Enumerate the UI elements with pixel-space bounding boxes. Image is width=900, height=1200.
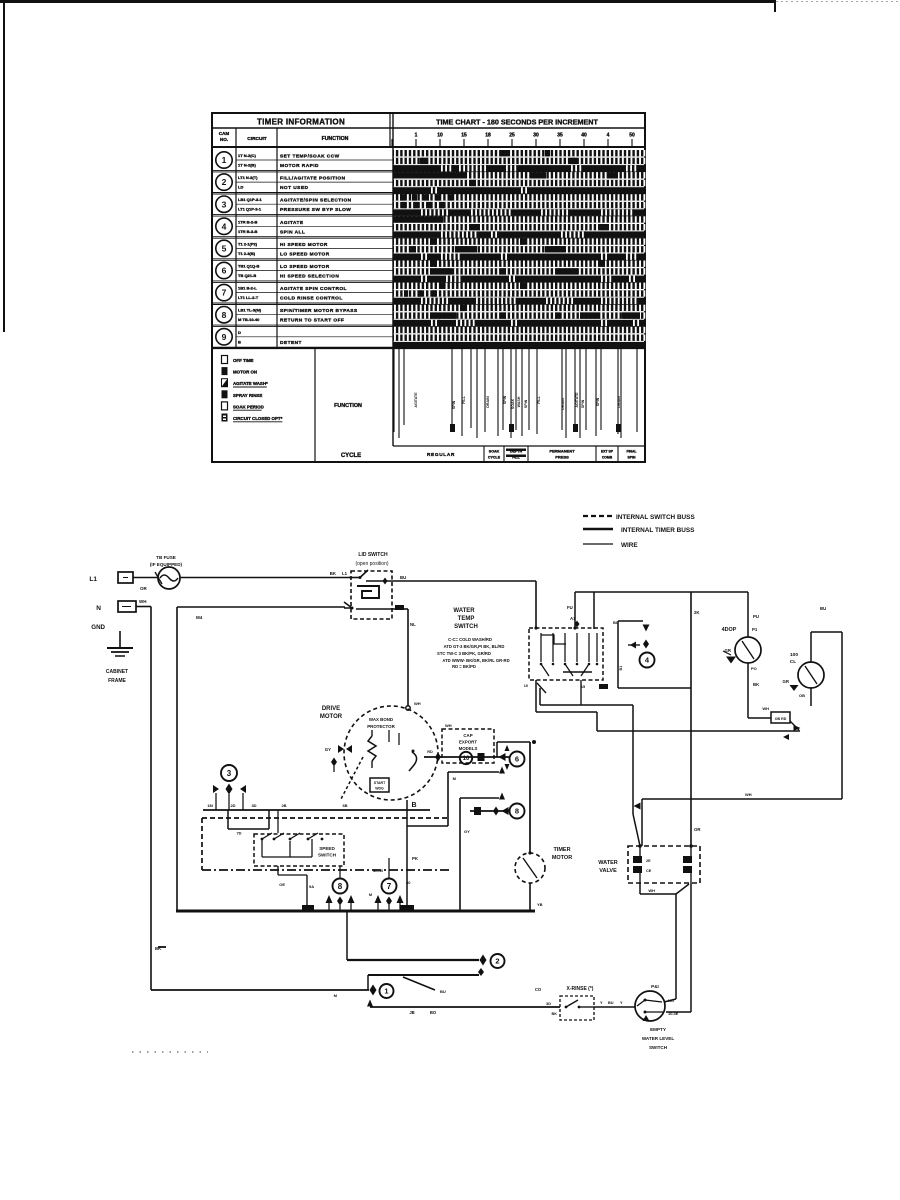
svg-text:3D: 3D [251, 803, 256, 808]
svg-text:6: 6 [515, 755, 519, 764]
svg-text:L1: L1 [342, 571, 348, 576]
svg-text:PRESSURE SW BYP SLOW: PRESSURE SW BYP SLOW [280, 207, 351, 213]
svg-text:WH: WH [139, 599, 147, 604]
svg-text:BU: BU [820, 606, 826, 611]
wire inner loops [448, 771, 499, 773]
svg-text:LID SWITCH: LID SWITCH [358, 552, 388, 558]
svg-text:8: 8 [338, 882, 343, 891]
svg-text:OE: OE [279, 882, 285, 887]
svg-text:WH: WH [445, 723, 452, 728]
svg-text:2: 2 [222, 177, 227, 187]
cam 7 row [216, 284, 232, 300]
svg-text:LT1 N-3(T): LT1 N-3(T) [238, 175, 258, 180]
wire bottom-left dotted mark [132, 1051, 208, 1053]
svg-text:35: 35 [557, 133, 563, 139]
svg-text:BK: BK [330, 571, 337, 576]
svg-text:2D: 2D [230, 803, 235, 808]
wire N bottom run [151, 989, 369, 991]
switch speed switch [254, 834, 344, 866]
svg-text:NOT USED: NOT USED [280, 185, 308, 191]
table legend cell [314, 348, 316, 461]
svg-text:6: 6 [222, 266, 227, 276]
svg-text:FILL: FILL [537, 395, 541, 403]
svg-text:TIME CHART - 180 SECONDS PER I: TIME CHART - 180 SECONDS PER INCREMENT [436, 118, 598, 127]
svg-text:BK: BK [753, 682, 760, 687]
svg-text:2E: 2E [646, 859, 651, 863]
svg-text:CL: CL [790, 659, 796, 665]
svg-text:DRAIN: DRAIN [561, 398, 565, 410]
wire clutch loop to valve [642, 798, 842, 800]
svg-text:WH: WH [648, 888, 655, 893]
svg-text:NO.: NO. [220, 137, 228, 142]
svg-text:AGITATE/SPIN SELECTION: AGITATE/SPIN SELECTION [280, 198, 352, 204]
svg-text:FINAL: FINAL [627, 450, 637, 454]
svg-text:9A: 9A [309, 884, 314, 889]
svg-text:HI SPEED SELECTION: HI SPEED SELECTION [280, 274, 339, 280]
svg-text:MOTOR RAPID: MOTOR RAPID [280, 163, 319, 169]
wire temp to valve left [539, 688, 541, 705]
cam 3 row [216, 196, 232, 212]
svg-text:3D: 3D [546, 1002, 551, 1006]
svg-text:(IF EQUIPPED): (IF EQUIPPED) [150, 562, 183, 567]
svg-text:VALVE: VALVE [599, 868, 617, 874]
node 1 contact [370, 985, 377, 996]
legend internal timer buss [583, 528, 613, 531]
legend wire [583, 543, 613, 545]
svg-text:DRAIN: DRAIN [617, 396, 621, 408]
svg-text:COMB: COMB [602, 456, 613, 460]
node 3 contact [221, 765, 237, 781]
svg-text:CYCLE: CYCLE [341, 453, 361, 459]
svg-text:CABINET: CABINET [106, 669, 128, 675]
svg-text:1: 1 [222, 155, 227, 165]
svg-text:SPIN/TIMER MOTOR BYPASS: SPIN/TIMER MOTOR BYPASS [280, 308, 358, 314]
svg-text:P&I: P&I [651, 984, 659, 989]
svg-text:COLD RINSE CONTROL: COLD RINSE CONTROL [280, 296, 343, 302]
svg-text:X-RINSE (*): X-RINSE (*) [567, 986, 594, 992]
svg-text:AGITATE: AGITATE [280, 220, 304, 226]
wire temp to pump/clutch bottom run [535, 680, 537, 712]
svg-text:3: 3 [222, 199, 227, 209]
svg-text:HI SPEED MOTOR: HI SPEED MOTOR [280, 242, 328, 248]
svg-text:GR: GR [783, 679, 790, 684]
svg-text:GY: GY [325, 747, 331, 752]
svg-text:RD = BK/PD: RD = BK/PD [452, 664, 476, 669]
svg-text:SPIN: SPIN [452, 400, 456, 409]
svg-text:TB FUSE: TB FUSE [156, 555, 176, 560]
svg-text:WH: WH [745, 792, 752, 797]
switch water level pressure switch [594, 1006, 635, 1008]
svg-text:REGULAR: REGULAR [427, 452, 455, 457]
svg-text:100: 100 [790, 652, 798, 658]
svg-text:SPEED: SPEED [319, 846, 335, 851]
svg-text:10: 10 [524, 684, 528, 688]
svg-text:AGITATE SPIN CONTROL: AGITATE SPIN CONTROL [280, 286, 347, 292]
svg-text:P1: P1 [752, 627, 758, 632]
svg-text:PROTECTOR: PROTECTOR [367, 724, 395, 729]
connector 7D block [227, 810, 229, 829]
cam 5 row [216, 240, 232, 256]
svg-text:B: B [411, 802, 416, 809]
connector OB/RD [771, 712, 790, 723]
svg-text:BU: BU [608, 1001, 614, 1005]
svg-text:1B1 B-2-L: 1B1 B-2-L [238, 286, 257, 291]
svg-text:CE: CE [646, 869, 652, 873]
svg-text:TIMER INFORMATION: TIMER INFORMATION [257, 118, 345, 127]
svg-text:1T N-2(B): 1T N-2(B) [238, 163, 256, 168]
svg-text:7D: 7D [236, 831, 241, 836]
svg-text:1T N-2(C): 1T N-2(C) [238, 153, 256, 158]
wire valve to pressure switch [639, 883, 641, 894]
svg-text:40: 40 [581, 133, 587, 139]
wire L1 to lid switch [133, 577, 158, 579]
svg-text:FRAME: FRAME [108, 678, 126, 684]
wire lid switch to motor [392, 608, 408, 610]
svg-text:CIRCUIT CLOSED OPT*: CIRCUIT CLOSED OPT* [233, 416, 283, 421]
svg-text:L1: L1 [89, 576, 97, 583]
svg-text:BU: BU [440, 989, 446, 994]
svg-text:CAP: CAP [463, 733, 472, 738]
svg-text:OFF TIME: OFF TIME [233, 358, 254, 363]
svg-text:B: B [238, 339, 241, 344]
svg-text:RD: RD [427, 750, 433, 754]
svg-text:T1 2-3(B): T1 2-3(B) [238, 251, 256, 256]
svg-text:SOAK: SOAK [489, 450, 500, 454]
wire clutch connections [810, 632, 812, 662]
wire below speed switch [277, 866, 279, 875]
svg-text:C-C= COLD WASH/RD: C-C= COLD WASH/RD [448, 637, 492, 642]
svg-text:BO: BO [430, 1010, 437, 1015]
svg-text:LO SPEED MOTOR: LO SPEED MOTOR [280, 251, 330, 257]
svg-text:4: 4 [607, 133, 610, 139]
svg-text:SPIN: SPIN [628, 456, 636, 460]
svg-text:1M: 1M [207, 803, 213, 808]
svg-text:PRESS: PRESS [555, 455, 569, 460]
svg-text:PU: PU [753, 614, 759, 619]
svg-text:MO10: MO10 [373, 869, 383, 873]
cam 2 row [216, 174, 232, 190]
svg-text:10.3E: 10.3E [668, 1011, 679, 1016]
wire PK [406, 800, 408, 905]
svg-text:YB: YB [537, 902, 543, 907]
cam 1 row [216, 152, 232, 168]
svg-text:T1 2-1(P2): T1 2-1(P2) [238, 241, 258, 246]
svg-text:FILL: FILL [462, 395, 466, 403]
svg-text:PK: PK [412, 856, 419, 861]
svg-text:PO: PO [751, 666, 757, 671]
svg-text:FU: FU [567, 605, 573, 610]
svg-text:SPIN: SPIN [503, 395, 507, 404]
motor timer motor [529, 742, 531, 853]
svg-text:CAM: CAM [219, 131, 230, 136]
svg-text:WH: WH [762, 706, 769, 711]
cam 6 row [216, 262, 232, 278]
svg-text:5: 5 [222, 243, 227, 253]
svg-text:6B: 6B [342, 803, 347, 808]
svg-text:JB: JB [409, 1010, 414, 1015]
svg-text:8: 8 [515, 807, 519, 816]
wire top page edge line [0, 0, 776, 3]
svg-text:DRIVE: DRIVE [322, 706, 340, 712]
node 8 bottom contact [333, 879, 348, 894]
svg-text:SWITCH: SWITCH [454, 624, 478, 630]
svg-text:WH: WH [414, 701, 421, 706]
svg-text:CIRCUIT: CIRCUIT [247, 136, 267, 142]
node 4 contact [618, 620, 643, 622]
svg-text:N: N [96, 605, 101, 612]
svg-text:MOTOR ON: MOTOR ON [233, 370, 257, 375]
capacitor CAP export models [442, 729, 494, 763]
svg-text:SWITCH: SWITCH [318, 853, 337, 858]
svg-text:1TR B-2-B: 1TR B-2-B [238, 219, 257, 224]
svg-text:1: 1 [415, 133, 418, 139]
svg-text:AGITATE: AGITATE [575, 392, 579, 408]
svg-text:1: 1 [384, 987, 388, 996]
svg-text:INTERNAL TIMER BUSS: INTERNAL TIMER BUSS [621, 527, 695, 534]
wire contact 2 lower blade [368, 974, 479, 976]
svg-text:SWITCH: SWITCH [649, 1045, 668, 1050]
svg-text:EMPTY: EMPTY [650, 1027, 666, 1032]
svg-text:2K: 2K [694, 610, 700, 615]
legend internal switch buss [583, 515, 613, 517]
svg-text:CO: CO [535, 987, 542, 992]
svg-text:OR: OR [694, 827, 701, 832]
svg-text:NL: NL [410, 622, 416, 627]
cam 9 row [216, 329, 232, 345]
svg-text:4DOP: 4DOP [722, 627, 737, 633]
svg-text:OB RD: OB RD [775, 717, 787, 721]
svg-text:BU: BU [400, 575, 406, 580]
svg-text:GY: GY [464, 829, 470, 834]
svg-text:DETENT: DETENT [280, 340, 302, 346]
svg-text:M4: M4 [196, 615, 203, 620]
svg-text:BU: BU [613, 620, 619, 625]
svg-text:EXT SP: EXT SP [601, 450, 614, 454]
wire pump connections [747, 592, 749, 637]
svg-text:OR: OR [140, 586, 148, 591]
svg-text:3: 3 [227, 769, 232, 778]
svg-text:FUNCTION: FUNCTION [334, 403, 362, 409]
wire right feed down to valve [690, 592, 692, 846]
svg-text:RETURN TO START OFF: RETURN TO START OFF [280, 318, 344, 324]
svg-text:WATER: WATER [598, 860, 617, 866]
svg-text:MODELS: MODELS [459, 746, 478, 751]
svg-text:SPIN: SPIN [524, 399, 528, 408]
timer information table frame [212, 113, 645, 462]
svg-text:25: 25 [509, 133, 515, 139]
svg-text:WIRE: WIRE [621, 542, 638, 549]
svg-text:FUNCTION: FUNCTION [322, 136, 349, 142]
svg-text:TIMER: TIMER [553, 847, 570, 853]
svg-text:EXPORT: EXPORT [459, 740, 477, 745]
node 6 wire [424, 756, 509, 758]
svg-text:TEMP: TEMP [458, 616, 475, 622]
svg-text:1TR B-3-B: 1TR B-3-B [238, 229, 257, 234]
svg-text:LD: LD [238, 185, 243, 190]
svg-text:GND: GND [91, 624, 105, 631]
svg-text:INTERNAL SWITCH BUSS: INTERNAL SWITCH BUSS [616, 514, 695, 521]
cam 4 row [216, 218, 232, 234]
svg-text:SOAK: SOAK [511, 398, 515, 409]
thermal protector [368, 736, 376, 761]
svg-text:7: 7 [387, 882, 392, 891]
svg-text:ATD WWW- BK/GR, BK/RL GR-RD: ATD WWW- BK/GR, BK/RL GR-RD [442, 658, 509, 663]
svg-text:WDG: WDG [375, 787, 384, 791]
wire left page edge line [3, 0, 5, 332]
svg-text:SPIN: SPIN [581, 399, 585, 408]
svg-text:SPIN ALL: SPIN ALL [280, 229, 305, 235]
svg-text:LB1 TL-3(M): LB1 TL-3(M) [238, 308, 262, 313]
svg-text:LO SPEED MOTOR: LO SPEED MOTOR [280, 264, 330, 270]
svg-text:2B: 2B [281, 803, 286, 808]
svg-text:AGITATE: AGITATE [414, 392, 418, 408]
wire lid switch to temp switch [392, 580, 536, 582]
svg-text:LT1 Q1P-3-1: LT1 Q1P-3-1 [238, 207, 262, 212]
svg-text:CYCLE: CYCLE [488, 456, 501, 460]
svg-text:SOAK PERIOD: SOAK PERIOD [233, 404, 264, 409]
svg-text:WAX BOND: WAX BOND [369, 717, 393, 722]
node 7 bottom contact [382, 879, 397, 894]
svg-text:BK: BK [552, 1012, 558, 1016]
node 2 contact [346, 912, 348, 960]
wire neutral bottom rail [176, 910, 535, 913]
node 8 wire [470, 810, 509, 812]
timer box outline [177, 606, 345, 608]
svg-text:MOTOR: MOTOR [320, 714, 343, 720]
svg-text:M TB-10-40: M TB-10-40 [238, 317, 260, 322]
svg-text:TB Q21-B: TB Q21-B [238, 273, 256, 278]
svg-text:FILL/AGITATE POSITION: FILL/AGITATE POSITION [280, 176, 346, 182]
svg-text:START: START [374, 781, 386, 785]
svg-text:DRAIN: DRAIN [486, 396, 490, 408]
svg-text:4: 4 [222, 221, 227, 231]
svg-text:WASH: WASH [517, 396, 521, 407]
start winding [370, 778, 389, 792]
svg-text:NO: NO [668, 998, 674, 1003]
svg-text:LB1 Q1P-3-1: LB1 Q1P-3-1 [238, 197, 263, 202]
wire bottom rinse run [367, 1000, 373, 1007]
svg-text:TB1 Q1Q-B: TB1 Q1Q-B [238, 264, 259, 269]
svg-text:WATER: WATER [453, 608, 475, 614]
cam 8 row [216, 307, 232, 323]
svg-text:(open position): (open position) [355, 561, 388, 567]
svg-text:SPRAY RINSE: SPRAY RINSE [233, 393, 262, 398]
wire internal switch buss B [202, 869, 450, 871]
svg-text:30: 30 [533, 133, 539, 139]
svg-text:SET TEMP/SOAK CCW: SET TEMP/SOAK CCW [280, 154, 340, 160]
wire internal switch buss A [202, 817, 447, 819]
wire temp switch feed loop [574, 592, 576, 628]
svg-text:7: 7 [222, 288, 227, 298]
svg-text:WATER LEVEL: WATER LEVEL [642, 1036, 675, 1041]
svg-text:B1: B1 [619, 666, 623, 671]
svg-text:LT1 LL-2-T: LT1 LL-2-T [238, 295, 259, 300]
svg-text:M: M [369, 893, 372, 897]
svg-text:SPIN: SPIN [596, 397, 600, 406]
dashed centrifugal link [341, 757, 363, 799]
svg-text:AGITATE WASH*: AGITATE WASH* [233, 381, 268, 386]
svg-text:PERMANENT: PERMANENT [549, 449, 575, 454]
svg-text:STC TW-C 3 BK/PK, GR/RD: STC TW-C 3 BK/PK, GR/RD [437, 651, 491, 656]
wire speed switch top rail [203, 809, 430, 811]
svg-text:15: 15 [461, 133, 467, 139]
svg-text:50: 50 [629, 133, 635, 139]
svg-text:OB: OB [799, 693, 805, 698]
svg-text:18: 18 [485, 133, 491, 139]
svg-text:2: 2 [495, 957, 499, 966]
svg-text:MOTOR: MOTOR [552, 855, 572, 861]
chart extension lines [393, 348, 395, 432]
cycle name band [393, 445, 645, 447]
svg-text:10: 10 [437, 133, 443, 139]
wire N rail left [136, 606, 151, 608]
svg-text:9: 9 [222, 332, 227, 342]
svg-text:D: D [238, 330, 241, 335]
svg-text:8: 8 [222, 310, 227, 320]
svg-text:ATD GT-3 BK/GR,PI BK, BL/RD: ATD GT-3 BK/GR,PI BK, BL/RD [444, 644, 505, 649]
